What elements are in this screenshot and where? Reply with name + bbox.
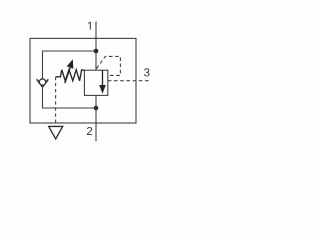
spring adjustment arrow — [65, 68, 70, 83]
port line 1 (inlet wire) — [95, 22, 97, 71]
check valve CV1 seat — [37, 79, 49, 87]
drain symbol (open triangle) — [49, 126, 63, 138]
pilot line (dashed) from port 1 to valve right side — [97, 56, 121, 75]
label 2 — [87, 127, 92, 135]
label 3 — [144, 68, 149, 76]
spring (adjustable) — [56, 70, 85, 81]
valve body (main spool square) — [84, 70, 107, 95]
flow path arrow inside valve — [102, 70, 104, 86]
wire: upper branch to check valve — [43, 51, 97, 79]
wire: check valve to lower branch — [43, 86, 97, 108]
port line 2 (outlet wire) — [95, 95, 97, 141]
drain line (dashed) from spring chamber to tank — [55, 77, 57, 127]
node junction dot lower — [94, 106, 99, 111]
check valve CV1 ball — [39, 79, 45, 85]
node junction dot upper — [94, 49, 99, 54]
label 1 — [88, 22, 91, 30]
drain line (dashed) to port 3 — [108, 80, 150, 82]
valve envelope (outer boundary box) — [30, 38, 136, 123]
